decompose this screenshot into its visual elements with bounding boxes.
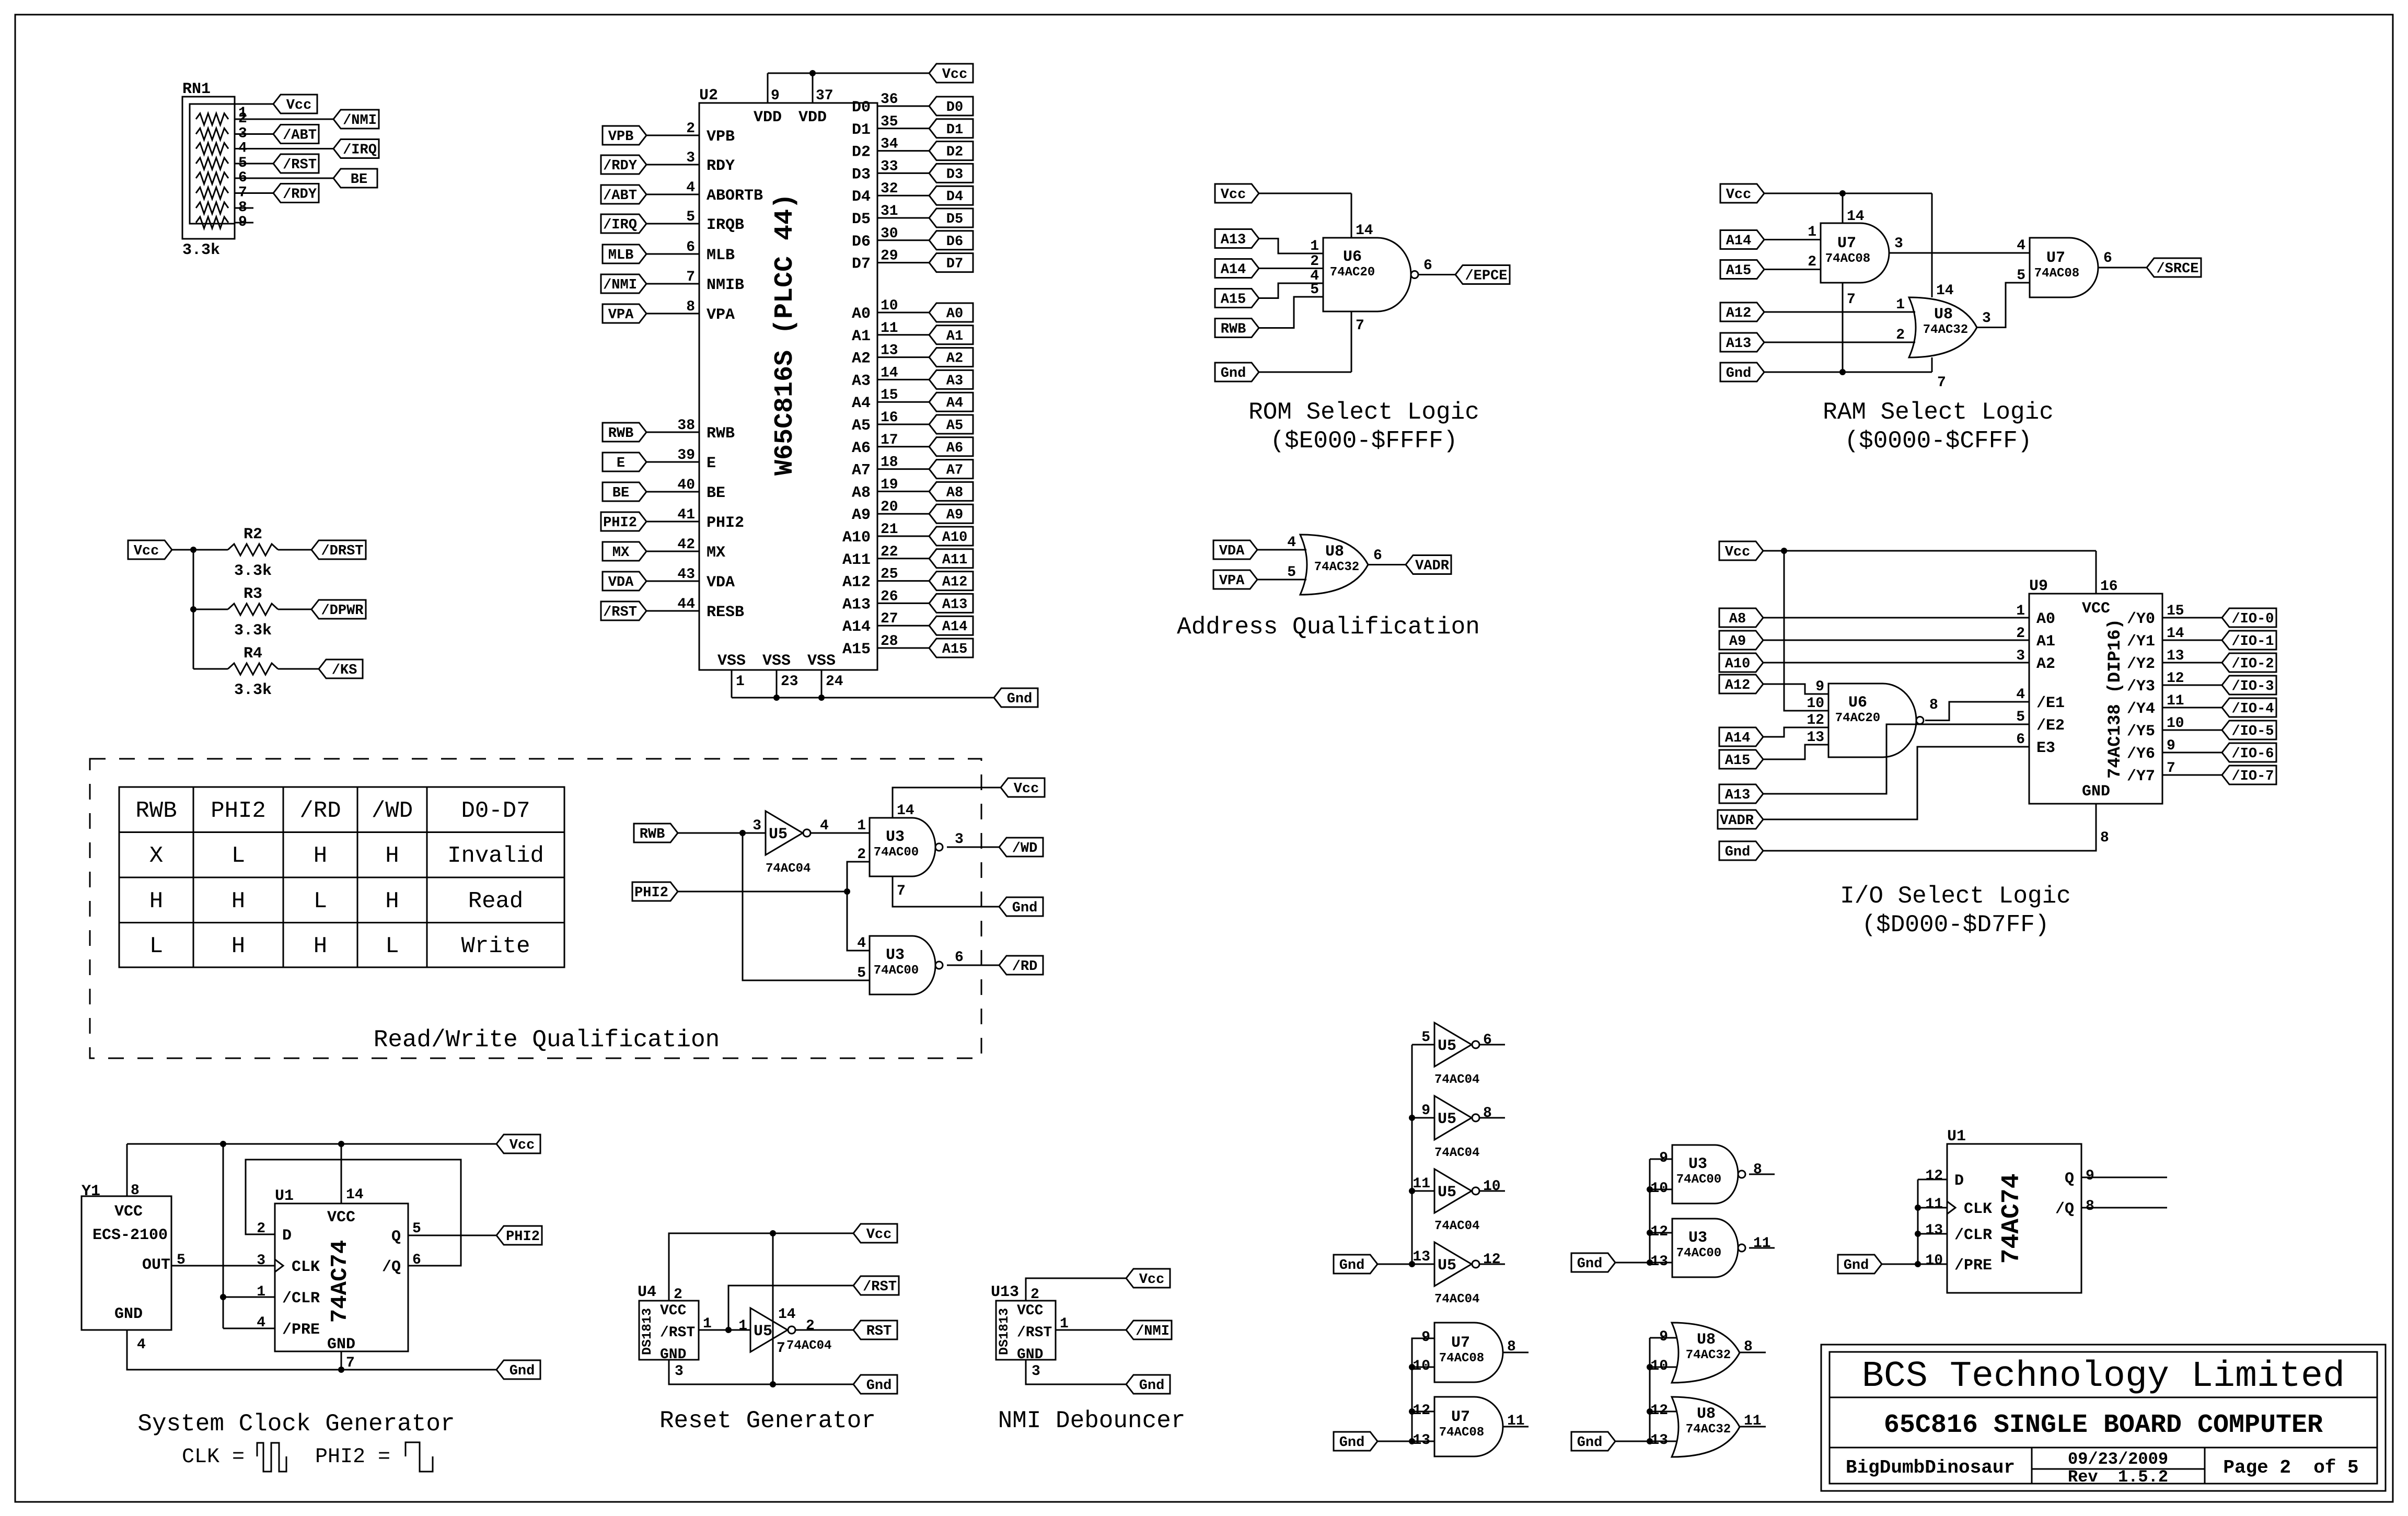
U9 vertical part name 74AC138 (DIP16) <box>2105 619 2125 779</box>
junction /RST node <box>725 1327 732 1333</box>
U9 pin name /Y0 <box>2127 610 2155 628</box>
NAND gate U6 74AC20 (ROM select) <box>1323 238 1418 311</box>
U2 reference label <box>699 87 718 105</box>
inverter U5 74AC04 (reset) <box>750 1308 795 1352</box>
net label RWB at U2 pin 38 <box>603 423 646 442</box>
U4 pin number 2 <box>674 1287 682 1303</box>
svg-text:/RDY: /RDY <box>283 187 317 203</box>
svg-text:/RST: /RST <box>603 605 637 620</box>
net label A7 <box>929 460 973 479</box>
svg-text:A12: A12 <box>1725 678 1751 693</box>
svg-text:A7: A7 <box>946 463 963 479</box>
U9 pin name /Y1 <box>2127 633 2155 651</box>
wire U2 A1 to net label <box>877 334 929 335</box>
U2 pin name BE <box>707 484 725 502</box>
table cell text /WD <box>372 798 413 824</box>
svg-text:Gnd: Gnd <box>1221 366 1246 381</box>
svg-text:6: 6 <box>686 239 695 256</box>
U7 pin number 14 <box>1847 209 1865 225</box>
svg-text:D4: D4 <box>946 189 963 205</box>
svg-text:A7: A7 <box>852 462 871 480</box>
U13 vertical part name DS1813 <box>997 1308 1012 1355</box>
svg-text:30: 30 <box>881 226 898 242</box>
svg-text:2: 2 <box>1310 253 1319 270</box>
wire U9 /Y6 to /IO-6 <box>2162 752 2222 754</box>
svg-text:/IO-5: /IO-5 <box>2231 724 2274 739</box>
U2 pin number 38 <box>677 418 695 434</box>
svg-text:D0: D0 <box>852 99 871 117</box>
net label /NMI at RN1 <box>333 110 379 129</box>
svg-text:Gnd: Gnd <box>510 1363 535 1379</box>
U3 pin number 9 <box>1659 1150 1668 1166</box>
RN1 resistor element 7 <box>196 202 228 214</box>
U9 pin number 7 <box>2167 760 2175 777</box>
net label D5 <box>929 209 973 227</box>
page number Page 2 of 5 <box>2223 1457 2358 1478</box>
wire U2 A13 to net label <box>877 603 929 604</box>
svg-text:34: 34 <box>881 136 898 153</box>
OR gate U8 74AC32 (RAM select) <box>1909 297 1977 357</box>
wire U9 /Y0 to /IO-0 <box>2162 617 2222 619</box>
svg-text:6: 6 <box>1483 1032 1492 1048</box>
U8 pin number 5 <box>1287 564 1296 581</box>
svg-text:A5: A5 <box>946 418 963 434</box>
table cell text X <box>149 843 163 869</box>
U8 pin number 2 <box>1896 327 1905 343</box>
svg-text:A12: A12 <box>842 574 871 592</box>
RN1 pin9 stub wire <box>235 222 253 224</box>
svg-text:VCC: VCC <box>327 1209 355 1226</box>
net label Gnd at spare U8 <box>1571 1432 1615 1451</box>
wire U5 output pin2 to RST <box>795 1329 853 1331</box>
svg-text:15: 15 <box>881 387 898 403</box>
junction ground rail at U1 pin7 <box>338 1367 344 1373</box>
resistor R4 <box>228 663 278 675</box>
svg-text:3.3k: 3.3k <box>234 622 272 640</box>
svg-text:13: 13 <box>881 343 898 359</box>
wire Y1 OUT pin5 to U1 CLK pin3 <box>171 1265 275 1267</box>
wire A12 to U8 pin1 <box>1764 311 1915 313</box>
junction spare U1 bus at CLK <box>1915 1205 1921 1211</box>
wire spare U1 /Q pin8 <box>2081 1207 2167 1209</box>
U2 pin number 8 <box>686 299 695 315</box>
svg-text:Gnd: Gnd <box>866 1378 892 1394</box>
wire U13 /RST pin1 to /NMI <box>1056 1329 1126 1331</box>
wire Gnd to spare U1 bus <box>1882 1264 1918 1265</box>
svg-text:74AC08: 74AC08 <box>1439 1426 1484 1440</box>
svg-text:U3: U3 <box>1688 1229 1707 1247</box>
svg-text:A4: A4 <box>946 396 963 411</box>
U5 pin number 8 <box>1483 1105 1492 1121</box>
U8 pin number 8 <box>1744 1339 1753 1355</box>
net label A8 <box>929 482 973 501</box>
spare U1 vertical part name 74AC74 <box>1998 1174 2026 1264</box>
title Reset Generator <box>659 1407 876 1434</box>
svg-text:7: 7 <box>1937 375 1946 391</box>
svg-text:VSS: VSS <box>807 652 836 670</box>
svg-text:H: H <box>314 843 327 869</box>
U7 pin number 3 <box>1894 236 1903 252</box>
svg-text:11: 11 <box>2167 693 2184 709</box>
spare U1 pin number 10 <box>1925 1253 1943 1269</box>
svg-text:11: 11 <box>1413 1176 1430 1192</box>
board title 65C816 SINGLE BOARD COMPUTER <box>1884 1410 2323 1440</box>
svg-text:10: 10 <box>2167 715 2184 732</box>
U2 pin number 11 <box>881 320 898 337</box>
wire RWB to U5 input <box>678 832 766 834</box>
svg-text:13: 13 <box>1413 1432 1430 1449</box>
svg-text:Gnd: Gnd <box>1012 900 1038 916</box>
wire U9 /Y7 to /IO-7 <box>2162 774 2222 776</box>
wire to U1 /CLR pin1 <box>223 1297 275 1298</box>
U2 pin number 3 <box>686 150 695 166</box>
svg-text:/IO-0: /IO-0 <box>2231 611 2274 627</box>
svg-text:13: 13 <box>1807 730 1824 746</box>
OR gate U8 74AC32 (address qualification) <box>1300 535 1368 595</box>
U1 pin number 7 <box>346 1355 355 1371</box>
svg-text:5: 5 <box>1287 564 1296 581</box>
RN1 resistor element 3 <box>196 143 228 155</box>
svg-text:System Clock Generator: System Clock Generator <box>137 1410 455 1438</box>
wire U9 /Y1 to /IO-1 <box>2162 640 2222 641</box>
U2 address pin A11 name <box>842 551 871 569</box>
svg-text:/IO-6: /IO-6 <box>2231 746 2274 762</box>
svg-text:BE: BE <box>351 172 367 188</box>
wire U2 A12 to net label <box>877 580 929 582</box>
svg-text:($E000-$FFFF): ($E000-$FFFF) <box>1270 427 1458 455</box>
net label Vcc at clock generator <box>496 1135 540 1153</box>
table cell text PHI2 <box>211 798 266 824</box>
svg-text:6: 6 <box>1423 258 1432 274</box>
svg-text:5: 5 <box>1421 1029 1430 1046</box>
wire A8 to U9 pin 1 <box>1763 617 2029 619</box>
U9 VCC pin name <box>2082 600 2110 618</box>
svg-text:21: 21 <box>881 522 898 538</box>
svg-text:E: E <box>617 456 625 471</box>
svg-text:Address Qualification: Address Qualification <box>1177 614 1480 641</box>
svg-text:E3: E3 <box>2036 739 2055 757</box>
R3 reference label <box>244 585 262 603</box>
svg-text:9: 9 <box>1421 1329 1430 1346</box>
vertical wire pullup bus <box>193 550 194 669</box>
subtitle ($0000-$CFFF) <box>1845 427 2032 455</box>
spare flip-flop U1 74AC74 body <box>1947 1144 2081 1293</box>
svg-text:PHI2: PHI2 <box>211 798 266 824</box>
svg-text:RWB: RWB <box>1221 322 1246 338</box>
Y1 pin number 8 <box>131 1183 140 1199</box>
svg-text:26: 26 <box>881 588 898 605</box>
U2 pin number 40 <box>677 477 695 493</box>
wire U8 pin7 to Gnd rail <box>1931 357 1933 372</box>
U2 pin name VDA <box>707 574 735 592</box>
svg-text:12: 12 <box>2167 670 2184 687</box>
svg-text:/Q: /Q <box>2055 1200 2074 1218</box>
net label /IRQ at RN1 <box>333 140 379 158</box>
svg-text:27: 27 <box>881 611 898 627</box>
svg-text:U8: U8 <box>1697 1331 1716 1349</box>
U2 address pin A9 name <box>852 506 871 524</box>
wire /NMI to U2 pin 7 <box>646 283 699 285</box>
svg-text:VDA: VDA <box>1219 543 1245 559</box>
svg-text:14: 14 <box>897 803 914 819</box>
svg-text:E: E <box>707 455 716 472</box>
svg-text:19: 19 <box>881 477 898 493</box>
Y1 OUT pin name <box>142 1256 170 1274</box>
svg-text:/WD: /WD <box>372 798 413 824</box>
Y1 part name ECS-2100 <box>92 1226 168 1244</box>
U8 pin number 12 <box>1650 1403 1668 1419</box>
net label D0 <box>929 97 973 115</box>
wire spare U7 pin13 <box>1412 1441 1434 1442</box>
svg-text:A14: A14 <box>942 619 968 635</box>
svg-text:A15: A15 <box>1725 753 1751 769</box>
U2 data pin D7 name <box>852 256 871 273</box>
svg-text:A12: A12 <box>942 575 968 591</box>
svg-text:Write: Write <box>461 933 530 959</box>
svg-text:43: 43 <box>677 566 695 583</box>
svg-text:OUT: OUT <box>142 1256 170 1274</box>
svg-text:D: D <box>1954 1172 1964 1190</box>
junction spare inverter bus at pin 11 <box>1409 1188 1415 1194</box>
U4 /RST pin name <box>660 1325 695 1341</box>
net label /KS <box>319 659 363 678</box>
svg-text:7: 7 <box>686 269 695 285</box>
net label A15 at RAM select <box>1720 260 1764 279</box>
svg-text:Gnd: Gnd <box>1339 1435 1365 1451</box>
table cell text H <box>314 843 327 869</box>
U1 pin number 2 <box>257 1221 265 1237</box>
U7 pin number 8 <box>1507 1339 1516 1355</box>
U7 pin number 2 <box>1808 254 1816 270</box>
svg-text:74AC08: 74AC08 <box>1825 252 1870 266</box>
svg-text:A13: A13 <box>942 597 968 612</box>
wire Gnd to spare inverter bus <box>1377 1264 1412 1265</box>
U2 pin name VPA <box>707 306 735 324</box>
wire U1 Q pin5 to PHI2 <box>408 1235 496 1236</box>
svg-text:NMIB: NMIB <box>707 276 744 294</box>
net label PHI2 at U2 pin 41 <box>601 512 646 531</box>
NAND gate U6 74AC20 (I/O select) <box>1828 684 1924 757</box>
spare U8 OR bus wire <box>1649 1338 1651 1441</box>
svg-text:Vcc: Vcc <box>1139 1272 1165 1288</box>
wire U2 A14 to net label <box>877 625 929 627</box>
svg-text:A1: A1 <box>852 328 871 345</box>
Y1 VCC pin name <box>114 1203 143 1221</box>
svg-text:A14: A14 <box>1725 731 1751 746</box>
spare inverter U5 74AC04 #3 <box>1434 1169 1479 1213</box>
U1 /PRE pin name <box>282 1321 320 1339</box>
U9 pin number 13 <box>2167 648 2184 664</box>
wire RN1 pin7 to /RDY <box>235 192 273 194</box>
U1 pin number 1 <box>257 1284 265 1300</box>
U6 pin number 6 <box>1423 258 1432 274</box>
svg-text:Gnd: Gnd <box>1725 844 1751 860</box>
wire VDA to U2 pin 43 <box>646 581 699 582</box>
wire VPA to U8 pin5 <box>1257 579 1306 581</box>
U2 pin number 25 <box>881 566 898 583</box>
svg-text:/KS: /KS <box>332 663 357 678</box>
U2 pin name RESB <box>707 604 744 621</box>
U2 pin number 19 <box>881 477 898 493</box>
U5 pin number 4 <box>820 818 829 834</box>
svg-text:A6: A6 <box>946 441 963 456</box>
wire U9 /Y5 to /IO-5 <box>2162 730 2222 731</box>
svg-text:U7: U7 <box>2046 249 2065 267</box>
spare U1 reference label <box>1947 1128 1966 1145</box>
svg-text:/RDY: /RDY <box>603 158 638 174</box>
net label D6 <box>929 231 973 250</box>
svg-text:74AC08: 74AC08 <box>2034 267 2079 281</box>
U2 pin number 16 <box>881 410 898 426</box>
wire Y1 pin8 to Vcc rail <box>126 1144 128 1196</box>
svg-text:2: 2 <box>1031 1287 1039 1303</box>
svg-text:74AC32: 74AC32 <box>1923 323 1968 337</box>
junction Vcc rail at U1 pin14 <box>338 1141 344 1147</box>
wire U2 pin9 VDD to Vcc rail <box>767 73 769 103</box>
svg-text:A1: A1 <box>946 329 963 344</box>
U3 pin number 8 <box>1753 1162 1762 1178</box>
spare U1 Q pin name <box>2065 1170 2074 1188</box>
net label A9 at I/O select <box>1719 631 1763 650</box>
wire U2 A3 to net label <box>877 379 929 380</box>
svg-text:65C816 SINGLE BOARD COMPUTER: 65C816 SINGLE BOARD COMPUTER <box>1884 1410 2323 1440</box>
wire RN1 pin6 to BE <box>235 178 333 179</box>
svg-text:15: 15 <box>2167 603 2184 619</box>
CLK waveform glyph <box>257 1443 286 1472</box>
U2 pin number 14 <box>881 365 898 381</box>
U1 Q pin name <box>391 1228 401 1246</box>
svg-text:D2: D2 <box>946 145 963 160</box>
svg-text:5: 5 <box>2016 709 2025 725</box>
RN1 pin number 9 <box>238 214 247 230</box>
Y1 pin number 4 <box>137 1337 146 1353</box>
oscillator Y1 ECS-2100 body <box>82 1196 171 1330</box>
wire U3 output pin6 to /RD <box>947 965 999 966</box>
svg-text:W65C816S (PLCC 44): W65C816S (PLCC 44) <box>770 193 800 476</box>
wire U7 output pin6 to /SRCE <box>2098 267 2147 269</box>
wire spare inverter output pin 8 <box>1479 1117 1505 1119</box>
svg-text:U8: U8 <box>1697 1405 1716 1423</box>
svg-text:U5: U5 <box>769 826 788 843</box>
U9 pin number 2 <box>2016 626 2025 642</box>
U2 address pin A7 name <box>852 462 871 480</box>
Vcc rail wire I/O select <box>1763 551 2096 594</box>
U1 VCC pin name <box>327 1209 355 1226</box>
U7 pin number 6 <box>2103 250 2112 267</box>
svg-text:A15: A15 <box>1221 292 1246 308</box>
resistor network RN1 outer body <box>182 97 235 239</box>
svg-text:CLK: CLK <box>292 1258 320 1276</box>
svg-text:I/O Select Logic: I/O Select Logic <box>1840 883 2071 910</box>
svg-text:6: 6 <box>2016 732 2025 748</box>
net label A14 <box>929 616 973 635</box>
wire spare U8 output pin8 <box>1740 1352 1766 1353</box>
wire spare U8 pin9 <box>1650 1337 1677 1339</box>
U2 pin number 5 <box>686 209 695 225</box>
svg-text:10: 10 <box>881 298 898 314</box>
U1 reference label <box>275 1187 294 1205</box>
net label Gnd at I/O select <box>1719 841 1763 860</box>
svg-text:12: 12 <box>1925 1168 1943 1184</box>
ground rail wire RAM select <box>1764 372 1932 373</box>
svg-text:14: 14 <box>1356 223 1373 239</box>
wire U4 /RST pin1 to U5 input <box>699 1329 750 1331</box>
control column wire Vcc to /CLR /PRE <box>223 1144 224 1328</box>
wire RN1 pin5 to /RST <box>235 163 273 165</box>
junction Vcc rail at control column <box>220 1141 226 1147</box>
svg-text:VCC: VCC <box>1017 1303 1044 1319</box>
wire PHI2 junction down to U3 pin4 <box>847 892 870 951</box>
net label Gnd at ROM select <box>1215 363 1259 381</box>
wire Gnd to spare U8 bus <box>1615 1441 1650 1442</box>
svg-text:32: 32 <box>881 181 898 197</box>
U6 pin number 10 <box>1807 696 1824 712</box>
wire U4 pin2 to Vcc rail <box>669 1233 853 1301</box>
U5 spare part number 74AC04 #3 <box>1434 1219 1479 1233</box>
net label A14 at ROM select <box>1215 259 1259 278</box>
svg-text:42: 42 <box>677 537 695 553</box>
U4 vertical part name DS1813 <box>640 1308 655 1355</box>
U2 pin number 41 <box>677 507 695 523</box>
junction ground rail at U5 power column <box>770 1381 776 1387</box>
svg-text:10: 10 <box>1413 1358 1430 1374</box>
wire to U1 /PRE pin4 <box>223 1328 275 1329</box>
U2 pin name E <box>707 455 716 472</box>
svg-text:A9: A9 <box>852 506 871 524</box>
svg-text:A10: A10 <box>1725 656 1751 672</box>
spare inverter U5 74AC04 #2 <box>1434 1096 1479 1140</box>
U2 pin number 28 <box>881 633 898 650</box>
junction spare U7 bus at pin13 <box>1409 1438 1415 1444</box>
U5 pin number 6 <box>1483 1032 1492 1048</box>
RN1 pin number 6 <box>238 170 247 186</box>
svg-text:A0: A0 <box>852 305 871 323</box>
svg-text:ABORTB: ABORTB <box>707 187 763 205</box>
U3 pin number 11 <box>1753 1235 1771 1252</box>
net label /NMI at U2 pin 7 <box>601 274 646 293</box>
net label VDA <box>1213 540 1257 559</box>
svg-text:5: 5 <box>857 965 866 981</box>
svg-text:Y1: Y1 <box>82 1183 100 1200</box>
wire U2 pin37 VDD to Vcc rail <box>812 73 814 103</box>
junction spare inverter bus at pin 13 <box>1409 1261 1415 1267</box>
svg-text:U7: U7 <box>1451 1408 1470 1426</box>
U5 pin number 14 <box>778 1306 796 1323</box>
spare inverter input bus wire <box>1411 1045 1413 1264</box>
net label A12 <box>929 572 973 591</box>
svg-text:MLB: MLB <box>707 247 735 264</box>
date 09/23/2009 <box>2068 1450 2168 1469</box>
svg-text:Vcc: Vcc <box>286 98 312 113</box>
table cell text Read <box>468 888 524 915</box>
table cell text H <box>385 888 399 915</box>
U9 pin number 15 <box>2167 603 2184 619</box>
svg-text:3: 3 <box>752 818 761 834</box>
net label Vcc at I/O select <box>1719 541 1763 560</box>
svg-text:Gnd: Gnd <box>1844 1258 1869 1274</box>
svg-text:BCS Technology Limited: BCS Technology Limited <box>1862 1356 2345 1397</box>
wire A13 to U8 pin2 <box>1764 342 1915 343</box>
U2 data pin D2 name <box>852 144 871 161</box>
svg-text:10: 10 <box>1650 1181 1668 1197</box>
svg-text:1: 1 <box>738 1318 747 1334</box>
svg-text:U5: U5 <box>1438 1257 1456 1275</box>
junction Gnd at U7 pin7 <box>1839 369 1846 375</box>
wire U2 A10 to net label <box>877 536 929 537</box>
svg-text:/IO-3: /IO-3 <box>2231 679 2274 695</box>
junction RWB node <box>739 830 746 836</box>
svg-text:7: 7 <box>1847 292 1856 308</box>
